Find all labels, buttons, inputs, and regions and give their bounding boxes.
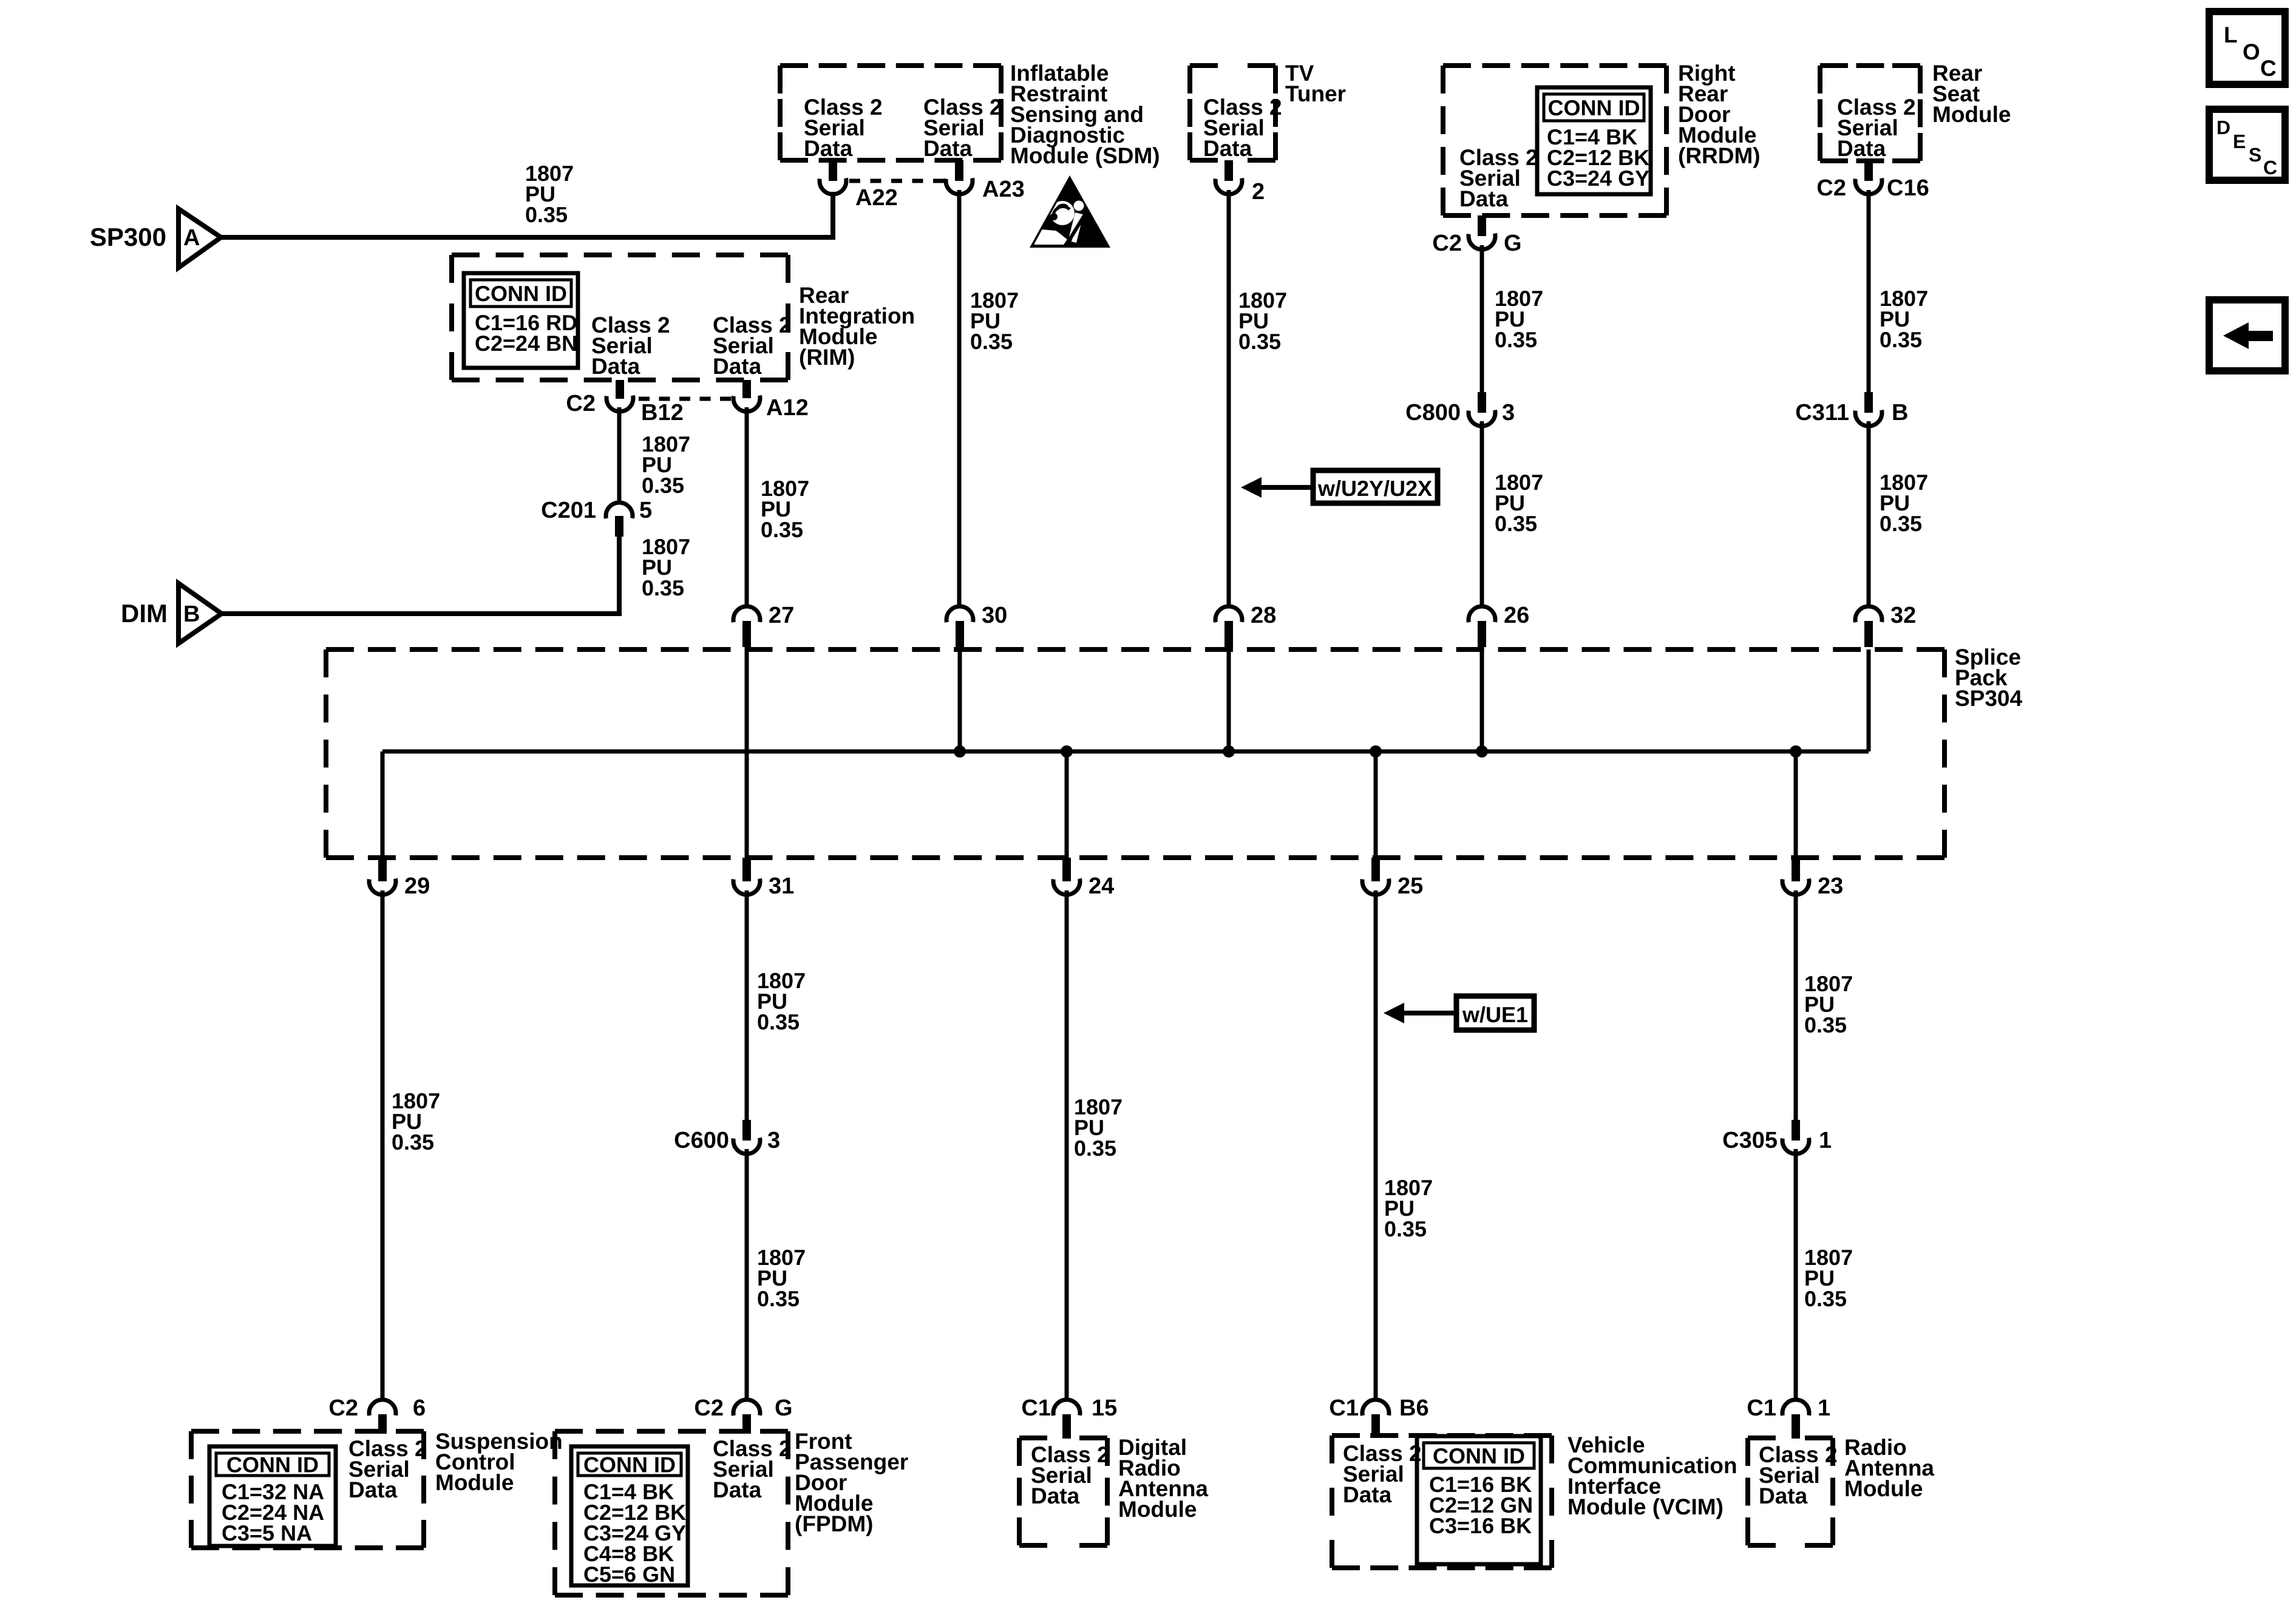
svg-text:0.35: 0.35 bbox=[1074, 1136, 1116, 1161]
connector C800 pin 3 bbox=[1405, 392, 1515, 426]
pin 6 connector on SCM C2 bbox=[328, 1395, 426, 1434]
svg-text:L: L bbox=[2224, 22, 2238, 47]
svg-text:2: 2 bbox=[1252, 179, 1265, 205]
splice pack bottom pin 31 bbox=[733, 858, 794, 899]
svg-text:24: 24 bbox=[1089, 873, 1114, 899]
svg-text:C2: C2 bbox=[566, 391, 596, 416]
svg-text:O: O bbox=[2243, 39, 2260, 64]
svg-text:0.35: 0.35 bbox=[757, 1009, 800, 1034]
label module name Digital Radio Antenna Module bbox=[1118, 1435, 1208, 1522]
bus junction node drop 25 bbox=[1370, 745, 1382, 758]
label module name Radio Antenna Module bbox=[1844, 1435, 1934, 1501]
svg-text:B12: B12 bbox=[641, 400, 684, 425]
label 1807 PU 0.35 on drop 24 wire bbox=[1074, 1094, 1123, 1161]
svg-text:G: G bbox=[1504, 231, 1522, 256]
svg-text:30: 30 bbox=[982, 603, 1007, 628]
splice pack top pin 27 bbox=[733, 603, 794, 647]
svg-text:0.35: 0.35 bbox=[642, 473, 684, 498]
connector C600 pin 3 bbox=[674, 1120, 780, 1154]
splice pack bottom pin 29 bbox=[369, 858, 430, 899]
connector C305 pin 1 bbox=[1722, 1120, 1832, 1154]
label TV tuner Class 2 Serial Data bbox=[1203, 95, 1282, 161]
svg-text:w/UE1: w/UE1 bbox=[1462, 1002, 1528, 1027]
module VCIM dashed box (Vehicle Communication Interface Module) bbox=[1332, 1436, 1552, 1568]
svg-text:A23: A23 bbox=[982, 177, 1025, 202]
VCIM CONN ID table bbox=[1417, 1436, 1541, 1564]
svg-text:31: 31 bbox=[769, 873, 794, 899]
label 1807 PU 0.35 on RSM wire lower bbox=[1880, 470, 1928, 536]
wire RRDM pin G to connector C800 bbox=[1480, 245, 1484, 392]
svg-text:0.35: 0.35 bbox=[1880, 511, 1922, 536]
label Splice Pack SP304 bbox=[1955, 645, 2023, 711]
splice SP300 source triangle A bbox=[90, 209, 221, 268]
svg-text:CONN ID: CONN ID bbox=[226, 1453, 319, 1477]
label 1807 PU 0.35 below C201 bbox=[642, 534, 690, 600]
svg-text:Data: Data bbox=[591, 354, 640, 379]
module Rear Seat Module dashed box bbox=[1820, 66, 1920, 161]
svg-text:Data: Data bbox=[1759, 1483, 1808, 1508]
module TV Tuner dashed box bbox=[1190, 66, 1275, 160]
svg-text:Data: Data bbox=[1343, 1482, 1392, 1507]
svg-text:0.35: 0.35 bbox=[525, 202, 568, 227]
RRDM CONN ID table bbox=[1537, 87, 1651, 194]
svg-text:32: 32 bbox=[1890, 603, 1916, 628]
svg-text:C600: C600 bbox=[674, 1128, 729, 1153]
svg-text:B6: B6 bbox=[1399, 1395, 1429, 1421]
svg-text:15: 15 bbox=[1092, 1395, 1117, 1421]
pin B6 connector on VCIM C1 bbox=[1329, 1395, 1428, 1436]
label RIM Class 2 Serial Data (left) bbox=[591, 313, 670, 379]
nav box DESC bbox=[2209, 109, 2285, 180]
connector C201 pin 5 bbox=[541, 498, 652, 537]
bus junction node pin 28 bbox=[1223, 745, 1235, 758]
splice pack bottom pin 25 bbox=[1362, 858, 1423, 899]
wire C600 to FPDM bbox=[745, 1149, 749, 1400]
wire splice pin 29 to SCM bbox=[381, 890, 385, 1400]
RIM CONN ID table bbox=[464, 273, 578, 368]
svg-text:C16: C16 bbox=[1887, 175, 1929, 201]
module SDM dashed box (Inflatable Restraint Sensing and Diagnostic Module) bbox=[780, 66, 1001, 160]
svg-text:A12: A12 bbox=[766, 395, 809, 421]
svg-text:28: 28 bbox=[1251, 603, 1276, 628]
pin 1 connector on RAM C1 bbox=[1747, 1395, 1830, 1439]
module Radio Antenna Module dashed box bbox=[1748, 1438, 1833, 1545]
svg-text:C2=24 BN: C2=24 BN bbox=[475, 331, 577, 356]
svg-text:C: C bbox=[2263, 157, 2277, 178]
label 1807 PU 0.35 on TV tuner wire bbox=[1238, 288, 1287, 354]
label 1807 PU 0.35 on RIM C2 wire bbox=[642, 432, 690, 498]
svg-text:0.35: 0.35 bbox=[642, 575, 684, 600]
svg-text:C5=6 GN: C5=6 GN bbox=[583, 1562, 675, 1587]
nav box LOC bbox=[2209, 12, 2285, 84]
label RIM Class 2 Serial Data (right) bbox=[713, 313, 792, 379]
wire C311 to splice pack pin 32 bbox=[1867, 421, 1871, 606]
label module name VCIM bbox=[1567, 1432, 1737, 1519]
module RRDM dashed box (Right Rear Door Module) bbox=[1443, 66, 1666, 215]
svg-text:CONN ID: CONN ID bbox=[475, 281, 567, 306]
label DRAM Class 2 Serial Data bbox=[1031, 1442, 1110, 1508]
svg-text:Data: Data bbox=[1203, 136, 1252, 161]
svg-text:23: 23 bbox=[1818, 873, 1843, 899]
svg-text:Data: Data bbox=[1459, 186, 1509, 211]
svg-text:3: 3 bbox=[1502, 400, 1515, 425]
svg-text:C3=16 BK: C3=16 BK bbox=[1429, 1513, 1532, 1538]
label SDM Class 2 Serial Data (right) bbox=[923, 95, 1002, 161]
svg-text:29: 29 bbox=[404, 873, 430, 899]
splice pack SP304 dashed box bbox=[326, 649, 1944, 858]
svg-text:E: E bbox=[2233, 131, 2246, 152]
svg-text:C1: C1 bbox=[1329, 1395, 1359, 1421]
svg-text:SP300: SP300 bbox=[90, 223, 166, 251]
wire A23 to splice pack pin 30 bbox=[957, 190, 962, 606]
SCM CONN ID table bbox=[209, 1446, 336, 1546]
svg-text:0.35: 0.35 bbox=[761, 517, 803, 542]
svg-text:0.35: 0.35 bbox=[392, 1130, 434, 1154]
label 1807 PU 0.35 on A23 wire bbox=[970, 288, 1019, 354]
svg-text:C311: C311 bbox=[1795, 400, 1849, 425]
label VCIM Class 2 Serial Data bbox=[1343, 1441, 1422, 1507]
svg-text:0.35: 0.35 bbox=[1880, 327, 1922, 352]
svg-text:SP304: SP304 bbox=[1955, 686, 2023, 711]
svg-text:0.35: 0.35 bbox=[1384, 1216, 1427, 1241]
splice DIM source triangle B bbox=[121, 583, 222, 643]
svg-text:3: 3 bbox=[767, 1128, 780, 1153]
label 1807 PU 0.35 on drop 29 wire bbox=[392, 1088, 440, 1154]
wire RSM pin C16 to connector C311 bbox=[1867, 190, 1871, 392]
splice pack bottom pin 23 bbox=[1782, 858, 1843, 899]
SRS airbag warning triangle symbol bbox=[1030, 175, 1110, 248]
label module name Rear Seat Module bbox=[1932, 61, 2011, 127]
wire C800 to splice pack pin 26 bbox=[1480, 421, 1484, 606]
svg-text:26: 26 bbox=[1504, 603, 1529, 628]
svg-text:C2: C2 bbox=[1816, 175, 1846, 201]
svg-text:Module: Module bbox=[1118, 1497, 1197, 1522]
svg-text:G: G bbox=[775, 1395, 793, 1421]
svg-text:Data: Data bbox=[713, 1477, 762, 1502]
svg-text:C305: C305 bbox=[1722, 1128, 1778, 1153]
svg-text:0.35: 0.35 bbox=[1804, 1286, 1847, 1311]
svg-text:Tuner: Tuner bbox=[1285, 81, 1346, 106]
label 1807 PU 0.35 on RSM wire upper bbox=[1880, 286, 1928, 352]
pin 15 connector on DRAM C1 bbox=[1021, 1395, 1117, 1439]
svg-text:Data: Data bbox=[348, 1477, 398, 1502]
svg-text:C201: C201 bbox=[541, 498, 596, 523]
svg-text:(FPDM): (FPDM) bbox=[795, 1511, 873, 1536]
pin A12 connector on RIM bbox=[733, 380, 809, 421]
svg-text:C1: C1 bbox=[1021, 1395, 1051, 1421]
label SDM Class 2 Serial Data (left) bbox=[804, 95, 883, 161]
svg-text:w/U2Y/U2X: w/U2Y/U2X bbox=[1317, 476, 1432, 501]
svg-text:Module (VCIM): Module (VCIM) bbox=[1567, 1494, 1724, 1519]
label module name FPDM bbox=[795, 1429, 908, 1536]
module Suspension Control Module dashed box bbox=[191, 1431, 424, 1548]
bus junction node drop 24 bbox=[1061, 745, 1073, 758]
svg-text:Module: Module bbox=[1844, 1476, 1923, 1501]
svg-text:A: A bbox=[183, 225, 200, 251]
svg-text:0.35: 0.35 bbox=[1804, 1012, 1847, 1037]
svg-text:Module: Module bbox=[435, 1470, 514, 1495]
svg-text:27: 27 bbox=[769, 603, 794, 628]
nav box back arrow bbox=[2209, 300, 2285, 371]
svg-text:Data: Data bbox=[713, 354, 762, 379]
splice pack top pin 26 bbox=[1469, 603, 1529, 647]
svg-text:S: S bbox=[2249, 144, 2261, 166]
svg-text:C2: C2 bbox=[328, 1395, 358, 1421]
svg-text:C800: C800 bbox=[1405, 400, 1461, 425]
wire splice pin 31 to connector C600 bbox=[745, 890, 749, 1120]
pin G connector on FPDM C2 bbox=[694, 1395, 792, 1434]
label 1807 PU 0.35 on wire A bbox=[525, 161, 574, 227]
svg-text:C3=5 NA: C3=5 NA bbox=[222, 1520, 312, 1545]
label 1807 PU 0.35 on RRDM wire lower bbox=[1495, 470, 1543, 536]
svg-text:D: D bbox=[2216, 117, 2230, 138]
svg-text:Data: Data bbox=[804, 136, 853, 161]
svg-text:0.35: 0.35 bbox=[1238, 329, 1281, 354]
svg-text:5: 5 bbox=[639, 498, 652, 523]
svg-text:0.35: 0.35 bbox=[970, 329, 1013, 354]
label FPDM Class 2 Serial Data bbox=[713, 1436, 792, 1502]
label SCM Class 2 Serial Data bbox=[348, 1436, 427, 1502]
wire splice pin 23 to connector C305 bbox=[1794, 890, 1798, 1120]
bus junction node pin 30 bbox=[954, 745, 966, 758]
wire RIM C2 to connector C201 bbox=[617, 407, 622, 502]
svg-text:DIM: DIM bbox=[121, 599, 168, 628]
label 1807 PU 0.35 on A12 wire bbox=[761, 476, 809, 542]
label 1807 PU 0.35 on RRDM wire upper bbox=[1495, 286, 1543, 352]
pin A22 connector on SDM bbox=[820, 160, 898, 211]
svg-text:Data: Data bbox=[1837, 136, 1886, 161]
label module name RRDM bbox=[1678, 61, 1761, 168]
wire SP300-A to SDM pin A22 (circuit 1807 PU 0.35) bbox=[220, 192, 833, 237]
label RSM Class 2 Serial Data bbox=[1837, 95, 1916, 161]
splice pack top pin 30 bbox=[946, 603, 1007, 647]
bus junction node pin 26 bbox=[1476, 745, 1488, 758]
pin G connector on RRDM C2 bbox=[1432, 215, 1521, 256]
svg-text:0.35: 0.35 bbox=[1495, 511, 1537, 536]
svg-text:6: 6 bbox=[413, 1395, 426, 1421]
label module name RIM bbox=[799, 283, 915, 370]
svg-text:Module: Module bbox=[1932, 102, 2011, 127]
splice pack bottom pin 24 bbox=[1053, 858, 1114, 899]
pin A23 connector on SDM bbox=[946, 160, 1025, 202]
svg-text:1: 1 bbox=[1819, 1128, 1832, 1153]
svg-text:CONN ID: CONN ID bbox=[1433, 1443, 1525, 1468]
note arrow w/U2Y/U2X bbox=[1241, 470, 1438, 503]
svg-text:A22: A22 bbox=[855, 185, 898, 211]
bus junction node drop 23 bbox=[1790, 745, 1802, 758]
pin 2 connector on TV tuner bbox=[1215, 160, 1265, 205]
wire splice pin 24 to DRAM bbox=[1065, 890, 1069, 1400]
svg-text:B: B bbox=[1892, 400, 1908, 425]
splice pack top pin 32 bbox=[1855, 603, 1916, 647]
svg-text:CONN ID: CONN ID bbox=[583, 1453, 676, 1477]
module RIM dashed box (Rear Integration Module) bbox=[452, 255, 788, 380]
svg-text:Data: Data bbox=[923, 136, 973, 161]
label 1807 PU 0.35 on drop 23 upper bbox=[1804, 971, 1853, 1037]
label module name SDM bbox=[1010, 61, 1160, 168]
label 1807 PU 0.35 on drop 25 wire bbox=[1384, 1175, 1433, 1241]
splice pack internal bus wire bbox=[382, 649, 1869, 858]
connector C311 pin B bbox=[1795, 392, 1908, 426]
label module name Suspension Control Module bbox=[435, 1429, 563, 1495]
dashed link between pins B12 and A12 bbox=[639, 397, 731, 401]
svg-text:1: 1 bbox=[1818, 1395, 1830, 1421]
wire C305 to RAM bbox=[1794, 1149, 1798, 1400]
pin B12 connector on RIM C2 bbox=[566, 380, 683, 425]
splice pack top pin 28 bbox=[1215, 603, 1276, 647]
module FPDM dashed box (Front Passenger Door Module) bbox=[555, 1431, 788, 1595]
svg-text:(RRDM): (RRDM) bbox=[1678, 143, 1761, 168]
svg-text:Data: Data bbox=[1031, 1483, 1080, 1508]
svg-text:C: C bbox=[2260, 56, 2277, 81]
wire TV tuner pin 2 to splice pack pin 28 bbox=[1227, 190, 1231, 606]
label RRDM Class 2 Serial Data bbox=[1459, 145, 1538, 211]
note arrow w/UE1 bbox=[1384, 996, 1534, 1030]
label 1807 PU 0.35 on drop 31 lower bbox=[757, 1245, 806, 1311]
svg-text:Module (SDM): Module (SDM) bbox=[1010, 143, 1160, 168]
pin C16 connector on RSM C2 bbox=[1816, 161, 1929, 201]
svg-text:B: B bbox=[183, 602, 200, 627]
dashed link between pins A22 and A23 bbox=[849, 179, 944, 183]
wire DIM-B to connector C201 (circuit 1807 PU 0.35) bbox=[220, 537, 619, 614]
svg-text:0.35: 0.35 bbox=[1495, 327, 1537, 352]
svg-text:C3=24 GY: C3=24 GY bbox=[1547, 166, 1649, 191]
module Digital Radio Antenna Module dashed box bbox=[1019, 1438, 1107, 1545]
svg-text:CONN ID: CONN ID bbox=[1548, 95, 1640, 120]
svg-text:0.35: 0.35 bbox=[757, 1286, 800, 1311]
svg-text:C1: C1 bbox=[1747, 1395, 1776, 1421]
label RAM Class 2 Serial Data bbox=[1759, 1442, 1838, 1508]
wire splice pin 25 to VCIM bbox=[1374, 890, 1378, 1400]
svg-text:C2: C2 bbox=[694, 1395, 724, 1421]
label module name TV Tuner bbox=[1285, 61, 1346, 106]
label 1807 PU 0.35 on drop 31 upper bbox=[757, 968, 806, 1034]
svg-text:(RIM): (RIM) bbox=[799, 345, 855, 370]
wire RIM A12 to splice pack pin 27 bbox=[745, 407, 749, 606]
svg-text:25: 25 bbox=[1398, 873, 1423, 899]
label 1807 PU 0.35 on drop 23 lower bbox=[1804, 1245, 1853, 1311]
FPDM CONN ID table bbox=[571, 1446, 688, 1587]
svg-text:C2: C2 bbox=[1432, 231, 1462, 256]
